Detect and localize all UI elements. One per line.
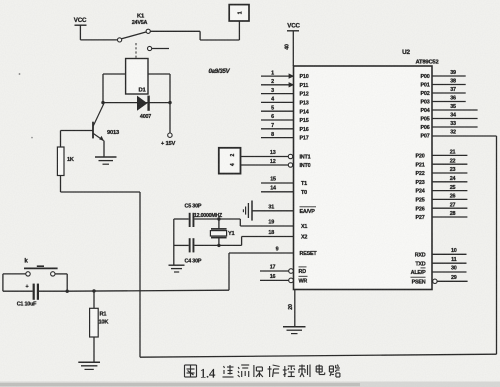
wire button left to rail [3, 274, 26, 291]
wire contact to connector box [150, 21, 239, 40]
pin 29 PSEN [411, 275, 468, 285]
wire P07 to right bus [432, 135, 497, 137]
pin 20 GND stem [288, 290, 295, 327]
power VCC (relay supply) [74, 17, 87, 40]
scan smear bottom edge [0, 382, 500, 387]
capacitor C5 30P [174, 204, 219, 227]
pushbutton k [24, 258, 58, 277]
pin 24 P23 [416, 176, 468, 186]
pin 28 P27 [416, 211, 468, 221]
ground (transistor emitter) [95, 157, 117, 164]
wire RESET riser [228, 253, 230, 290]
pin 13 INT1 [241, 150, 311, 160]
pin 5 P14 [261, 105, 309, 115]
connector box 1 [229, 5, 249, 21]
wire reset node horizontal [67, 290, 229, 291]
crystal Y1 [210, 219, 234, 245]
node crystal top junction [217, 217, 220, 220]
caption 图1.4过流保护控制电路 (drawn strokes) [185, 365, 197, 377]
resistor R1 10K [90, 291, 109, 362]
node coil/diode right junction [168, 101, 171, 104]
pin 37 P02 [421, 87, 466, 97]
wire diode net [103, 102, 170, 104]
power VCC (MCU) [287, 22, 300, 66]
pin 15 T1 [261, 177, 307, 187]
node R1 top junction [92, 289, 95, 292]
label K1 24V5A [132, 14, 148, 26]
ground (crystal caps) [169, 265, 185, 272]
scan speck [19, 73, 21, 75]
pin 6 P15 [261, 114, 309, 124]
pin 27 P26 [416, 202, 468, 212]
pin 11 TXD [415, 257, 466, 267]
relay contact lower terminal [148, 46, 170, 50]
pin 25 P24 [416, 185, 468, 195]
pin 10 RXD [415, 248, 467, 258]
pin 19 X1 [268, 220, 307, 230]
pin 1 P10 [261, 70, 309, 80]
connector box 2/4 (INT input) [219, 148, 241, 174]
pin 2 P11 [261, 79, 308, 89]
pin 35 P04 [421, 104, 478, 114]
wire coil left lead [103, 74, 126, 103]
ground (MCU GND pin) [283, 327, 306, 334]
relay contact upper terminal [146, 29, 150, 33]
pin 30 ALE/P [411, 266, 467, 276]
pin 12 INT0 [241, 159, 311, 169]
pin 39 P00 [421, 70, 466, 80]
pin 32 P07 [421, 130, 456, 140]
pin 22 P21 [416, 158, 468, 168]
pin 36 P03 [421, 96, 466, 106]
pin 7 P16 [261, 123, 309, 133]
pin 26 P25 [416, 194, 468, 204]
pin 34 P05 [421, 113, 478, 123]
relay contact lever [122, 32, 146, 39]
terminal +15V [161, 103, 176, 147]
pin 23 P22 [416, 167, 468, 177]
relay K1 mechanical link (dashed) [135, 43, 137, 59]
capacitor C4 30P [174, 238, 219, 264]
pin 16 WR [260, 274, 308, 284]
pin 31 EA/VP [268, 205, 316, 216]
pin 33 P06 [421, 121, 478, 131]
node coil/diode left junction [101, 101, 104, 104]
pin 18 X2 [268, 230, 307, 240]
relay K1 coil [126, 59, 148, 95]
node button/reset net [66, 290, 69, 293]
pin 38 P01 [421, 79, 466, 89]
right bus vertical wire [496, 136, 498, 354]
wire crystal left rail [173, 219, 175, 265]
bottom bus wire [140, 354, 497, 357]
wire coil right lead [148, 74, 170, 103]
wire button right leg [55, 274, 67, 291]
wire VCC to relay contact [80, 39, 117, 41]
diode D1 4007 [137, 87, 151, 120]
wire transistor base [61, 130, 94, 132]
wire X2 net jog [219, 237, 294, 246]
node crystal bottom junction [217, 244, 220, 247]
wire 1K to bottom bus [61, 192, 141, 357]
pin 4 P13 [261, 97, 309, 107]
resistor 1K [57, 131, 74, 193]
capacitor C1 10uF [3, 284, 67, 308]
relay contact common terminal [118, 38, 122, 42]
ground (below R1) [78, 362, 100, 369]
pin 21 P20 [416, 150, 468, 160]
wire X1 net jog [219, 219, 294, 226]
pin 8 P17 [261, 132, 309, 142]
ground (EA/VP pin, rotated) [243, 201, 293, 221]
IC U2 AT89C52 body [294, 49, 439, 290]
pin 17 RD [260, 265, 307, 275]
pin 14 T0 [261, 186, 307, 196]
pin 9 RESET [229, 247, 317, 257]
transistor Q1 9013 [93, 103, 120, 156]
pin 3 P12 [261, 88, 309, 98]
